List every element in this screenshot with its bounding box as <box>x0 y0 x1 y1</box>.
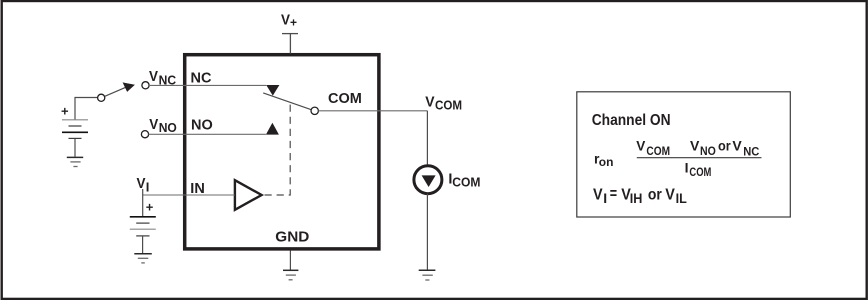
wire IN net <box>143 194 235 196</box>
formula denominator ICOM <box>685 160 712 179</box>
svg-text:V: V <box>732 138 742 154</box>
svg-text:IH: IH <box>630 190 643 206</box>
VNO input terminal circle <box>141 131 148 138</box>
formula numerator VCOM VNO or VNC <box>636 138 760 159</box>
ground under battery B1 <box>67 157 83 166</box>
VI label <box>137 175 150 195</box>
NC contact triangle <box>266 85 279 96</box>
svg-text:or: or <box>718 138 731 154</box>
svg-text:I: I <box>603 190 607 206</box>
svg-text:NC: NC <box>743 146 760 158</box>
VCOM label <box>425 94 462 113</box>
current source arrow <box>422 175 436 187</box>
svg-text:Channel ON: Channel ON <box>592 112 671 129</box>
svg-text:COM: COM <box>435 98 462 112</box>
svg-text:NO: NO <box>159 121 177 135</box>
NO contact triangle <box>266 123 279 135</box>
IC box U1 <box>185 55 379 249</box>
svg-text:IL: IL <box>676 190 687 206</box>
ground under GND pin <box>283 270 298 280</box>
formula r_on <box>594 150 613 169</box>
formula fraction bar <box>637 157 762 159</box>
svg-text:+: + <box>290 15 297 29</box>
svg-text:V: V <box>425 94 435 111</box>
switch lever inside IC <box>263 93 311 110</box>
ICOM label <box>448 172 480 190</box>
svg-text:NO: NO <box>700 146 716 159</box>
svg-text:NC: NC <box>191 71 212 87</box>
wire GND pin to ground <box>289 251 291 271</box>
wire battery B1 to ground <box>74 139 76 157</box>
svg-text:COM: COM <box>689 166 711 179</box>
V+ label <box>281 12 297 30</box>
svg-text:I: I <box>146 179 150 194</box>
formula box <box>577 92 791 217</box>
wire current source to ground <box>426 194 428 270</box>
VNC input terminal circle <box>142 82 149 89</box>
wire battery B2 to ground <box>142 236 144 253</box>
battery B2 (VI source) <box>130 217 156 236</box>
svg-text:GND: GND <box>275 229 309 246</box>
svg-text:NO: NO <box>191 117 213 133</box>
COM pole circle <box>311 107 318 114</box>
svg-text:V: V <box>690 138 700 154</box>
wire NO net <box>149 133 266 135</box>
svg-text:V: V <box>665 186 675 204</box>
svg-text:COM: COM <box>646 145 670 158</box>
battery B1 (VNC/VNO drive) <box>62 120 88 139</box>
ground under battery B2 <box>134 254 152 263</box>
svg-text:=: = <box>610 184 617 202</box>
svg-text:V: V <box>593 186 603 204</box>
svg-text:COM: COM <box>452 175 480 189</box>
svg-text:+: + <box>146 200 154 215</box>
svg-text:COM: COM <box>328 91 362 107</box>
wire VI to battery B2 <box>142 189 144 217</box>
formula VI = VIH or VIL <box>593 184 687 206</box>
svg-text:V: V <box>137 175 147 192</box>
dashed control line <box>263 105 290 195</box>
wire NC net <box>149 84 266 86</box>
VNO label <box>149 115 177 135</box>
current source ICOM circle <box>414 166 442 194</box>
svg-text:+: + <box>61 104 69 119</box>
svg-text:V: V <box>636 139 646 154</box>
buffer driver A1 <box>235 180 262 210</box>
switch S1 lever wire <box>105 87 126 96</box>
wire COM net <box>318 111 427 166</box>
switch S1 pole circle <box>98 94 105 101</box>
VNC label <box>149 68 176 88</box>
svg-text:IN: IN <box>190 181 205 197</box>
switch S1 arrowhead <box>123 82 135 92</box>
svg-text:I: I <box>685 160 689 176</box>
svg-text:or: or <box>648 187 662 204</box>
svg-text:V: V <box>149 115 159 132</box>
ground under current source <box>419 270 436 280</box>
wire battery B1 to switch pole <box>75 97 98 120</box>
V+ supply symbol <box>282 34 298 54</box>
svg-text:V: V <box>149 68 159 85</box>
svg-text:on: on <box>599 155 614 169</box>
